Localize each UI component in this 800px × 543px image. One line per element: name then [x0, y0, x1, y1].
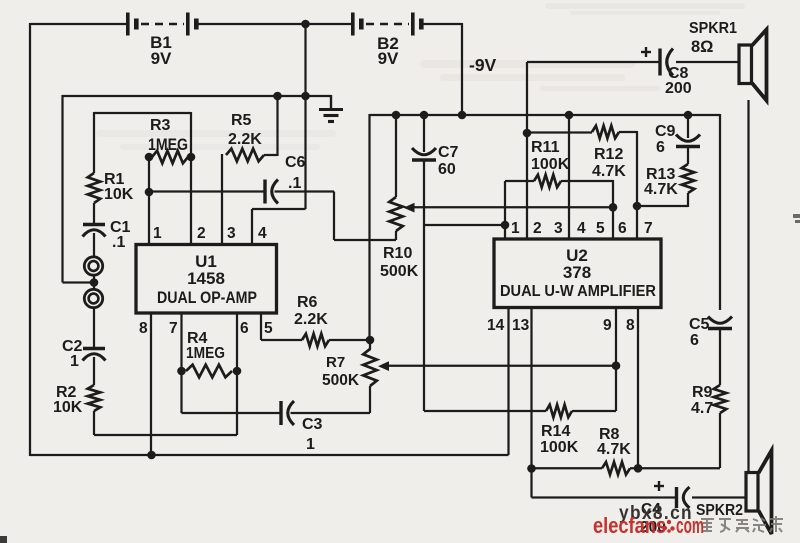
label U2 DUAL U-W AMPLIFIER [500, 283, 656, 300]
junction: pin13 / C4 node [527, 464, 536, 473]
wire: battery midpoint vertical [304, 24, 306, 209]
svg-text:8Ω: 8Ω [691, 38, 713, 56]
wire: C2 to R2 [93, 357, 95, 385]
potentiometer R10 [389, 197, 403, 231]
pin label U1-2 [197, 225, 206, 242]
wire: R1 top lead [93, 112, 95, 173]
label U2 [566, 246, 588, 265]
svg-text:1MEG: 1MEG [148, 136, 188, 154]
wire: top supply rail left segment [30, 23, 128, 25]
wire: ground rail horizontal [63, 95, 332, 97]
pin label U2-4 [577, 220, 586, 237]
label C6 value .1 [288, 175, 301, 192]
svg-text:3: 3 [227, 225, 236, 242]
wire: R10 bottom lead [395, 231, 397, 240]
pin label U1-4 [258, 225, 267, 242]
wire: U2 pin4 vertical [568, 115, 570, 240]
wire: U1 pin6 / R2 vertical [236, 313, 238, 435]
svg-text:9V: 9V [151, 49, 172, 68]
potentiometer R7 [363, 349, 377, 386]
label R12 value 4.7K [592, 163, 626, 180]
label R7 value 500K [322, 372, 360, 389]
label R6 value 2.2K [294, 311, 328, 328]
svg-text:14: 14 [487, 317, 505, 334]
wire: U1 pin7 vertical [180, 313, 182, 413]
svg-text:7: 7 [644, 220, 653, 237]
pin label U1-7 [169, 320, 178, 337]
speaker SPKR2 [746, 451, 772, 535]
wire: R12 right drop / U2 pin7 [636, 131, 638, 240]
junction: battery midpoint tap on ground rail [301, 92, 310, 101]
pin label U2-14 [487, 317, 505, 334]
svg-text:2: 2 [533, 220, 542, 237]
capacitor C3 [281, 401, 294, 425]
wire: U1 pin4 jog horizontal [252, 208, 306, 210]
wire: U2 pin2 long vertical from C8 [526, 62, 528, 240]
wire: R11 left drop to pin1 [504, 181, 506, 240]
wire: R7 top lead [369, 340, 371, 350]
svg-text:R3: R3 [150, 117, 171, 134]
wire: R6 right lead [329, 339, 370, 341]
junction: R3 left [145, 153, 154, 162]
wire: -9V bus right drop [719, 114, 721, 310]
pin label U1-8 [139, 320, 148, 337]
svg-text:10K: 10K [104, 186, 134, 203]
svg-text:1: 1 [70, 353, 79, 370]
label C3 value 1 [306, 436, 315, 453]
wire: R9 bottom lead [719, 413, 721, 468]
label C1 value .1 [112, 234, 125, 251]
svg-text:500K: 500K [380, 263, 419, 280]
label C6 [285, 154, 306, 171]
wire: R6 left lead [261, 339, 302, 341]
svg-text:SPKR1: SPKR1 [689, 20, 737, 37]
svg-text:elecfans: elecfans [593, 513, 666, 538]
svg-text:R10: R10 [383, 245, 412, 262]
pin label U1-5 [264, 320, 273, 337]
label R8 [599, 426, 620, 443]
label C1 [110, 219, 131, 236]
svg-text:R7: R7 [326, 354, 345, 371]
wire: B2 to -9V corner [423, 23, 462, 25]
wire: U1 pin2 vertical [190, 112, 192, 245]
svg-text:C6: C6 [285, 154, 306, 171]
svg-text:4.7K: 4.7K [597, 441, 631, 458]
junction: battery midpoint on top rail [301, 20, 310, 29]
label C4 value 200 [640, 519, 666, 536]
wiper arrow of R7 [378, 361, 389, 371]
svg-text:5: 5 [264, 320, 273, 337]
wire: jack J1 to jack J2 [93, 275, 95, 289]
wire: U2 pin13 vertical [530, 307, 532, 469]
pin label U2-2 [533, 220, 542, 237]
junction: U2 pin1 node [501, 221, 510, 230]
label U1 [195, 252, 217, 271]
label R10 value 500K [380, 263, 419, 280]
wire: R12 right corner [619, 131, 637, 133]
wire: C4 line [532, 496, 677, 498]
pin label U2-1 [511, 220, 520, 237]
wire: R1 to C1 [93, 203, 95, 223]
wire: jack J2 to C2 [93, 308, 95, 347]
svg-text:-9V: -9V [469, 55, 497, 75]
resistor R8 [602, 462, 630, 475]
wire: C8 to SPKR1 [676, 61, 739, 63]
svg-text:4.7K: 4.7K [644, 181, 678, 198]
svg-text:.1: .1 [112, 234, 125, 251]
label B1 [150, 33, 172, 52]
wire: C3 to R7 bottom [291, 412, 371, 414]
label R9 value 4.7 [691, 400, 713, 417]
junction: U2 pin 4 feed on bus [565, 111, 574, 120]
capacitor C6 [265, 180, 278, 204]
resistor R14 [546, 405, 572, 418]
capacitor C9 [676, 135, 700, 147]
label U1 part 1458 [187, 269, 225, 288]
junction: U1 pin8 on ground rail [147, 451, 156, 460]
junction: U2 pin8 node on R8 line [634, 464, 643, 473]
wire: R8 line left [532, 467, 603, 469]
label R4 value 1MEG [186, 345, 225, 362]
power amplifier U2 body [494, 239, 661, 308]
pin label U2-13 [512, 317, 530, 334]
svg-text:9: 9 [603, 317, 612, 334]
svg-text:8: 8 [626, 317, 635, 334]
resistor R6 [302, 334, 329, 347]
resistor R1 [88, 173, 101, 203]
label R13 [646, 166, 675, 183]
svg-text:10K: 10K [53, 399, 83, 416]
label B1 value 9V [151, 49, 172, 68]
label SPKR1 [689, 20, 737, 37]
svg-text:6: 6 [618, 220, 627, 237]
svg-text:R12: R12 [594, 146, 623, 163]
svg-text:60: 60 [438, 161, 456, 178]
wire: R14 riser to pin9 node [615, 365, 617, 411]
junction: R4 right [233, 367, 242, 376]
wire: U1 pin8 to ground rail [150, 313, 152, 456]
label R6 [297, 294, 318, 311]
wire: U1 pin5 stub [260, 313, 262, 340]
wire: R7 bottom lead [369, 386, 371, 413]
junction: C6 line at pin1 [145, 188, 154, 197]
wire: R8 line right to R9 [630, 467, 720, 469]
label R10 [383, 245, 412, 262]
svg-text:9V: 9V [378, 49, 399, 68]
label C2 value 1 [70, 353, 79, 370]
label C7 value 60 [438, 161, 456, 178]
label C8 value 200 [665, 80, 692, 97]
watermark elecfans.com (red) [593, 513, 704, 538]
junction: jack common [90, 278, 99, 287]
svg-text:com: com [676, 513, 704, 538]
svg-text:100K: 100K [531, 156, 570, 173]
pin label U1-1 [153, 225, 162, 242]
wire: SPKR1 return vertical to SPKR2 [747, 100, 749, 473]
capacitor C8 (polarized) [660, 49, 673, 76]
resistor R2 [88, 385, 101, 411]
wire: U1 pin1 vertical [148, 157, 150, 245]
pin label U2-7 [644, 220, 653, 237]
wire: pin1 link to C7 line [424, 224, 505, 226]
junction: C7 top on -9V bus [420, 111, 429, 120]
wire: C6 line from U1 pin1 [149, 190, 265, 192]
svg-text:R9: R9 [692, 384, 713, 401]
label C9 [655, 123, 676, 140]
ground symbol [319, 95, 343, 122]
svg-text:R11: R11 [531, 139, 560, 156]
label SPKR1 impedance 8ohm [691, 38, 713, 56]
pin label U2-3 [554, 220, 563, 237]
pin label U2-9 [603, 317, 612, 334]
label B2 [377, 34, 399, 53]
wire: C1 to jack J1 [93, 233, 95, 257]
watermark chinese characters (dianzi fashaoyou) [701, 516, 783, 532]
label R12 [594, 146, 623, 163]
label C5 value 6 [690, 332, 699, 349]
svg-text:5: 5 [596, 220, 605, 237]
svg-text:R5: R5 [231, 112, 252, 129]
wire: R11 left corner lead [505, 180, 534, 182]
label R8 value 4.7K [597, 441, 631, 458]
label R3 value 1MEG [148, 136, 188, 154]
svg-text:6: 6 [690, 332, 699, 349]
wire: outer left vertical (+ rail) [29, 23, 31, 456]
resistor R13 [682, 164, 695, 193]
svg-text:100K: 100K [540, 439, 579, 456]
wire: C7 bottom long vertical [423, 160, 425, 411]
svg-text:2.2K: 2.2K [228, 131, 262, 148]
capacitor C2 [83, 349, 106, 361]
wire: R10 wiper to U2 pin6 [414, 206, 614, 208]
pin label U2-8 [626, 317, 635, 334]
svg-text:2: 2 [197, 225, 206, 242]
wire: pin13 drop to C4 line [530, 469, 532, 498]
label R14 value 100K [540, 439, 579, 456]
label U1 DUAL OP-AMP [157, 289, 257, 307]
svg-text:R14: R14 [541, 423, 570, 440]
resistor R9 [714, 385, 727, 413]
junction: battery -9V feed on bus [458, 111, 467, 120]
wire: R2 bottom to corner [93, 411, 95, 435]
pin label U1-6 [240, 320, 249, 337]
label B2 value 9V [378, 49, 399, 68]
svg-text:6: 6 [240, 320, 249, 337]
junction: C9 top on -9V bus [684, 111, 693, 120]
capacitor C5 [708, 317, 732, 329]
pin label U1-3 [227, 225, 236, 242]
label SPKR2 [696, 502, 743, 519]
label R5 [231, 112, 252, 129]
svg-text:8: 8 [139, 320, 148, 337]
watermark ybx8.cn [619, 503, 693, 524]
wire: C7 route to R14 [424, 410, 546, 412]
wire: C6 route to R10 bottom [334, 239, 396, 241]
label R14 [541, 423, 570, 440]
wire: R5 left/pin3 vertical [221, 154, 223, 245]
wire: pin7 to R13 bottom link [637, 205, 688, 207]
wire: -9V bus [370, 114, 721, 116]
wiper arrow of R10 [404, 203, 415, 213]
wire: U2 pin14 to ground rail [507, 307, 509, 455]
wire: R10 top lead [395, 115, 397, 197]
svg-text:200: 200 [665, 80, 692, 97]
wire: -9V drop from battery B2 [461, 23, 463, 115]
wire: R5 right riser to ground rail [276, 96, 278, 156]
wire: C6 drop to R10 bottom [333, 192, 335, 241]
battery B1 [126, 13, 199, 36]
wire: C4 to SPKR2 [692, 496, 746, 498]
resistor R5 [226, 149, 264, 162]
wire: U1 pin4 stub [251, 209, 253, 245]
junction: R10 top on -9V bus [392, 111, 401, 120]
svg-text:6: 6 [656, 139, 665, 156]
label R1 value 10K [104, 186, 134, 203]
label C9 value 6 [656, 139, 665, 156]
capacitor C7 [412, 148, 436, 160]
input jack J2 [84, 289, 102, 307]
junction: R5 top on ground rail [273, 92, 282, 101]
svg-text:4.7K: 4.7K [592, 163, 626, 180]
junction: pin7 / R13 node [633, 202, 642, 211]
wire: ground-rail left drop to input jacks [61, 95, 63, 283]
resistor R4 [186, 365, 232, 378]
junction: U2 pin9 node [612, 361, 621, 370]
junction: R6 / R7 top / -9V drop [366, 336, 375, 345]
svg-text:2.2K: 2.2K [294, 311, 328, 328]
wire: C9 to R13 [687, 147, 689, 165]
wire: R3 right lead [188, 156, 191, 158]
label C4 [641, 501, 661, 518]
label C5 [689, 316, 710, 333]
svg-text:4: 4 [577, 220, 586, 237]
label R2 value 10K [53, 399, 83, 416]
wire: C9 top lead [687, 115, 689, 138]
battery B2 [351, 13, 424, 36]
wire: R12 left lead [527, 131, 592, 133]
wire: top rail between B1 and B2 [199, 23, 351, 25]
plus sign of C4 [654, 481, 664, 491]
wire: bottom ground rail [30, 454, 509, 456]
label R2 [56, 384, 77, 401]
wire: U2 pin9 vertical [615, 307, 617, 366]
label R11 value 100K [531, 156, 570, 173]
svg-text:1: 1 [306, 436, 315, 453]
capacitor C4 (polarized) [677, 487, 690, 508]
junction: R4 left [177, 367, 186, 376]
svg-text:7: 7 [169, 320, 178, 337]
svg-text:13: 13 [512, 317, 530, 334]
svg-text:3: 3 [554, 220, 563, 237]
svg-text:378: 378 [563, 263, 591, 282]
junction: U2 pin6 node [609, 203, 618, 212]
pin label U2-6 [618, 220, 627, 237]
wire: C7 top lead [423, 115, 425, 152]
wire: -9V bus left drop to R7 [368, 114, 370, 340]
svg-text:C9: C9 [655, 123, 676, 140]
svg-text:.1: .1 [288, 175, 301, 192]
label C3 [302, 416, 323, 433]
label R4 [187, 330, 208, 347]
label C7 [438, 144, 459, 161]
label C8 [668, 65, 689, 82]
label C2 [62, 338, 83, 355]
svg-text:4.7: 4.7 [691, 400, 713, 417]
label R11 [531, 139, 560, 156]
label R3 [150, 117, 171, 134]
input jack J1 [84, 257, 102, 275]
svg-text:C7: C7 [438, 144, 459, 161]
speaker SPKR1 [739, 30, 767, 101]
svg-text:1: 1 [511, 220, 520, 237]
label R9 [692, 384, 713, 401]
wire: U2 pin8 vertical [637, 307, 639, 469]
svg-text:1: 1 [153, 225, 162, 242]
svg-text:500K: 500K [322, 372, 360, 389]
capacitor C1 [83, 225, 106, 237]
junction: R12 left on pin2 line [523, 129, 532, 138]
wire: C6 output to corner [275, 190, 335, 192]
label -9V net [469, 55, 497, 75]
wire: R14 right lead [572, 410, 616, 412]
op-amp U1 body [136, 245, 277, 314]
svg-text:DUAL OP-AMP: DUAL OP-AMP [157, 289, 257, 307]
label R13 value 4.7K [644, 181, 678, 198]
svg-text:4: 4 [258, 225, 267, 242]
wire: jack common stub [63, 281, 95, 283]
wire: R7 wiper to U2 pin9 [388, 365, 616, 367]
wire: C3 line from U1 pin7 [182, 412, 282, 414]
svg-text:DUAL U-W AMPLIFIER: DUAL U-W AMPLIFIER [500, 283, 656, 300]
label R1 [104, 171, 125, 188]
label R5 value 2.2K [228, 131, 262, 148]
resistor R3 [152, 151, 188, 164]
svg-text:1MEG: 1MEG [186, 345, 225, 362]
wire: R2 route to U1 pin 6 line [94, 434, 237, 436]
label R7 [326, 354, 345, 371]
wire: R5 right lead [264, 154, 278, 156]
wire: R11 right drop to pin6 node [612, 180, 614, 240]
svg-text:R6: R6 [297, 294, 318, 311]
wire: C8 line [527, 61, 660, 63]
pin label U2-5 [596, 220, 605, 237]
svg-text:C3: C3 [302, 416, 323, 433]
svg-text:C5: C5 [689, 316, 710, 333]
wire: C5 to R9 [719, 329, 721, 386]
label U2 part 378 [563, 263, 591, 282]
wire: R11 right lead [561, 180, 613, 182]
plus sign of C8 [641, 47, 651, 57]
resistor R12 [592, 126, 619, 139]
junction: R3 right on pin2 line [187, 153, 196, 162]
wire: R13 bottom lead [687, 193, 689, 207]
svg-text:1458: 1458 [187, 269, 225, 288]
wire: R1 loop top [94, 112, 191, 114]
resistor R11 [534, 175, 561, 188]
